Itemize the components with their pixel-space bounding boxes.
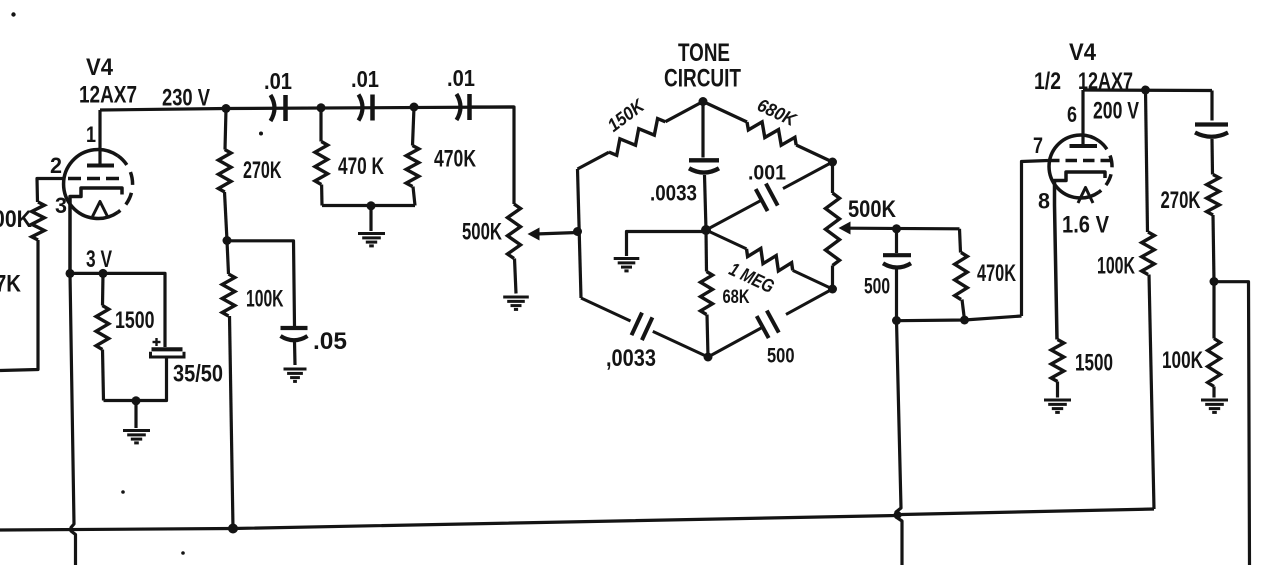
svg-text:.01: .01 <box>264 68 292 94</box>
svg-text:200 V: 200 V <box>1093 98 1139 125</box>
svg-text:.05: .05 <box>313 328 347 355</box>
wire cathode line <box>70 273 165 347</box>
resistor 470K (right) <box>955 229 968 320</box>
wire to ground (cathode) <box>134 401 137 428</box>
wire bottom link to grid riser <box>897 316 1022 321</box>
ground (below 500K pot) <box>503 297 529 309</box>
potentiometer 500K (hexagon right side) <box>826 162 840 289</box>
label 1500 (left) <box>115 307 155 334</box>
svg-text:230 V: 230 V <box>162 85 210 112</box>
svg-text:500K: 500K <box>848 196 897 223</box>
resistor 1500 (right cathode) <box>1051 340 1064 398</box>
svg-text:.01: .01 <box>447 65 475 91</box>
svg-text:500: 500 <box>767 345 795 368</box>
resistor 1 MEG (center to lower-right) <box>706 230 833 289</box>
capacitor 500 (lower-right edge) <box>708 289 833 357</box>
tube V4a heater <box>93 202 108 217</box>
label 470K (right) <box>977 260 1016 287</box>
svg-text:V4: V4 <box>86 54 114 81</box>
label V4 (left) <box>86 54 114 81</box>
capacitor .0033 (vertical, top to center) <box>689 102 719 231</box>
node cathode-ground junction <box>132 396 141 405</box>
svg-text:6: 6 <box>1067 102 1077 127</box>
label 7K (cut at edge) <box>0 271 22 298</box>
svg-text:8: 8 <box>1038 189 1050 214</box>
node wiper junction (left side) <box>573 227 582 236</box>
node cathode junction B (1500 top) <box>99 269 108 278</box>
node 270K/100K junction (right) <box>1210 277 1219 286</box>
svg-text:00K: 00K <box>0 206 33 233</box>
node plate-line / 270K junction <box>222 104 231 113</box>
capacitor .001 (center to upper-right) <box>706 162 833 230</box>
svg-text:270K: 270K <box>1161 187 1201 214</box>
label 12AX7 (left) <box>79 82 137 109</box>
resistor 470K #1 <box>315 108 328 206</box>
label pin 6 <box>1067 102 1077 127</box>
resistor 150K (hexagon edge) <box>578 102 704 170</box>
resistor 100K (far right) <box>1208 282 1221 398</box>
speck <box>181 551 185 555</box>
label 230 V <box>162 85 210 112</box>
wire 35/50 bottom <box>104 357 167 401</box>
node 270K/100K/.05 junction <box>223 236 232 245</box>
svg-text:1500: 1500 <box>115 307 155 334</box>
label .01 #3 <box>447 65 475 91</box>
label 1/2 <box>1034 68 1061 95</box>
label 12AX7 (right) <box>1078 68 1133 95</box>
resistor 100K (mid, plate to bus) <box>1142 90 1155 509</box>
svg-text:.01: .01 <box>351 66 379 92</box>
svg-text:V4: V4 <box>1069 39 1097 66</box>
node hexagon center <box>701 225 711 235</box>
resistor grid-leak (label cut: 00K) <box>32 202 45 240</box>
capacitor 35/50 electrolytic <box>151 338 185 357</box>
label 470K (#2) <box>434 146 476 173</box>
capacitor (top right coupling) <box>1195 125 1228 137</box>
svg-text:7K: 7K <box>0 271 22 298</box>
ground (below 35/50) <box>123 431 150 443</box>
wire .01#3 to 500K pot <box>470 107 515 204</box>
wire cathode drop to bottom edge <box>70 273 76 565</box>
label pin 2 <box>50 153 62 178</box>
svg-text:270K: 270K <box>243 157 282 184</box>
label 270K (right) <box>1161 187 1201 214</box>
label TONE <box>678 39 730 67</box>
svg-text:500K: 500K <box>462 219 502 246</box>
speck <box>11 12 15 16</box>
label pin 7 <box>1033 133 1043 158</box>
label .0033 (mid) <box>650 181 697 206</box>
label 1.6 V <box>1062 212 1109 239</box>
label pin 8 <box>1038 189 1050 214</box>
svg-text:35/50: 35/50 <box>173 361 223 388</box>
node 470K ground junction <box>367 201 376 210</box>
label 680K (rotated) <box>754 94 800 131</box>
label 470 K (#1) <box>338 153 384 180</box>
wire joining 470K bottoms <box>322 204 415 207</box>
resistor 68K (center to bottom) <box>701 230 713 357</box>
node hexagon bottom vertex <box>704 353 713 362</box>
tube V4a 12AX7 envelope <box>64 150 133 219</box>
node plate-line / 470K#1 junction <box>317 103 326 112</box>
wire V4b plate line <box>1083 88 1212 92</box>
svg-text:3 V: 3 V <box>86 246 112 273</box>
capacitor .05 <box>281 328 308 340</box>
tube V4b cathode <box>1055 172 1106 340</box>
svg-text:.0033: .0033 <box>650 181 697 206</box>
label 500K (left pot) <box>462 219 502 246</box>
label .01 #1 <box>264 68 292 94</box>
resistor 1500 (left) <box>96 273 109 400</box>
tube V4a plate <box>87 110 114 166</box>
capacitor .01 #3 <box>457 94 470 120</box>
label 1500 (right) <box>1075 350 1113 377</box>
capacitor .01 #1 <box>271 95 286 121</box>
ground (hexagon center) <box>614 259 640 271</box>
svg-text:68K: 68K <box>723 287 750 308</box>
wire junction to .05 cap <box>227 241 295 326</box>
wire grid-leak resistor to left edge <box>0 240 38 371</box>
svg-text:,0033: ,0033 <box>606 345 656 372</box>
wire .05 to ground <box>293 341 297 365</box>
svg-text:7: 7 <box>1033 133 1043 158</box>
label 100K (left) <box>246 286 284 313</box>
label 00K (cut at edge) <box>0 206 33 233</box>
svg-text:TONE: TONE <box>678 39 730 67</box>
tube V4b heater <box>1078 188 1093 204</box>
ground (right cathode) <box>1044 400 1071 412</box>
ground (below .05) <box>284 369 307 381</box>
node bus / drop junction <box>894 511 902 519</box>
wire plate line to coupling cap <box>1210 91 1213 121</box>
label pin 1 <box>86 122 96 147</box>
svg-text:500: 500 <box>864 274 890 299</box>
label 500K (right pot) <box>848 196 897 223</box>
svg-text:12AX7: 12AX7 <box>79 82 137 109</box>
tube V4a cathode <box>70 188 122 273</box>
wire junction to right edge drop <box>1214 282 1250 565</box>
node 470K bottom junction <box>960 316 969 325</box>
resistor 680K (hexagon edge) <box>703 102 833 163</box>
ground (below 470Ks) <box>358 234 385 246</box>
label .01 #2 <box>351 66 379 92</box>
wire junction drop to bus <box>896 321 902 565</box>
node 500-cap bottom junction <box>892 316 901 325</box>
capacitor 500 (right) <box>883 229 911 321</box>
resistor 470K #2 <box>406 107 419 206</box>
node 100K / bus junction <box>228 524 238 534</box>
wiper arrow (right pot) <box>839 222 960 235</box>
svg-text:470K: 470K <box>434 146 476 173</box>
tube V4a grid (dashed) <box>68 177 123 181</box>
capacitor .0033 (lower-left edge) <box>581 298 708 357</box>
svg-text:1: 1 <box>86 122 96 147</box>
label 35/50 <box>173 361 223 388</box>
tube V4b plate <box>1070 90 1098 146</box>
svg-text:470 K: 470 K <box>338 153 384 180</box>
svg-text:CIRCUIT: CIRCUIT <box>664 65 741 93</box>
svg-text:3: 3 <box>55 193 67 218</box>
label 3 V <box>86 246 112 273</box>
label 200 V <box>1093 98 1139 125</box>
label 500 (bottom) <box>767 345 795 368</box>
label 68K <box>723 287 750 308</box>
svg-text:1.6 V: 1.6 V <box>1062 212 1109 239</box>
label ,0033 <box>606 345 656 372</box>
node hexagon lower-right vertex <box>828 285 837 294</box>
capacitor .01 #2 <box>359 95 373 121</box>
node hexagon top vertex <box>699 97 708 106</box>
svg-text:.001: .001 <box>748 162 786 185</box>
label 100K (mid) <box>1097 253 1135 280</box>
svg-text:2: 2 <box>50 153 62 178</box>
node 500-cap junction (wiper line) <box>892 224 901 233</box>
svg-text:470K: 470K <box>977 260 1016 287</box>
resistor 270K (right) <box>1207 139 1220 282</box>
svg-text:1500: 1500 <box>1075 350 1113 377</box>
svg-text:100K: 100K <box>1097 253 1135 280</box>
label .05 <box>313 328 347 355</box>
label 270K (left) <box>243 157 282 184</box>
label 500 (right) <box>864 274 890 299</box>
wire grid V4a pin2 to grid-leak resistor <box>37 179 64 203</box>
speck <box>259 132 263 136</box>
node hexagon upper-right vertex <box>828 158 837 167</box>
speck <box>121 490 125 494</box>
potentiometer 500K (left) <box>508 204 521 294</box>
label 100K (far right) <box>1162 347 1203 374</box>
label .001 <box>748 162 786 185</box>
ground (far right 100K) <box>1201 400 1228 412</box>
tube V4b grid (dashed) <box>1048 159 1110 163</box>
wire hexagon left side <box>578 169 582 298</box>
label 150K (rotated) <box>603 94 649 136</box>
wire bottom bus <box>0 509 1154 530</box>
resistor 100K (left) <box>222 241 235 529</box>
resistor 270K (left) <box>218 109 231 241</box>
wire to ground (470Ks) <box>369 206 372 231</box>
label pin 3 <box>55 193 67 218</box>
svg-text:100K: 100K <box>1162 347 1203 374</box>
wire 230V plate line <box>100 107 514 110</box>
node plate-line / 470K#2 junction <box>410 103 419 112</box>
tube V4b 1/2 12AX7 envelope <box>1049 135 1112 198</box>
svg-text:100K: 100K <box>246 286 284 313</box>
label CIRCUIT <box>664 65 741 93</box>
wire grid riser to V4b pin 7 <box>1022 161 1049 317</box>
label V4 (right) <box>1069 39 1097 66</box>
wiper arrow (left pot) <box>528 228 578 241</box>
node plate line / 100K junction <box>1141 86 1150 95</box>
wire center to ground <box>627 232 707 257</box>
svg-text:1/2: 1/2 <box>1034 68 1061 95</box>
node cathode junction A <box>66 269 75 278</box>
label 1 MEG (rotated) <box>726 259 778 298</box>
